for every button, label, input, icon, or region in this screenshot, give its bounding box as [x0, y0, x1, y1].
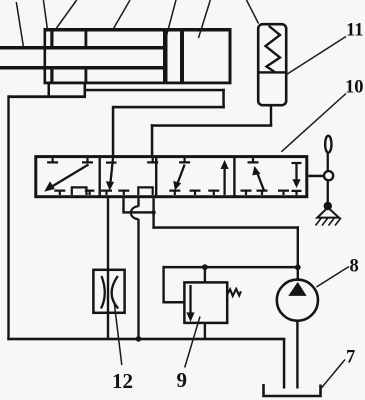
piston left face [163, 30, 168, 82]
valve S1 diagonal arrow [50, 165, 89, 189]
cylinder barrel right wall [229, 28, 232, 84]
lever mount hatching [316, 218, 342, 226]
valve S2 bottom T left [101, 191, 112, 195]
valve S4 diagonal arrow [257, 172, 265, 192]
valve S4 bottom T right [278, 191, 289, 195]
valve section divider 3 [233, 157, 235, 197]
leader line to label 7 [322, 360, 345, 388]
lever pivot ball [324, 202, 332, 210]
valve S1 bottom T [54, 191, 65, 195]
valve S3 bottom T mid [190, 191, 201, 195]
lever knob [325, 136, 331, 153]
leader line to label 2 (cut off) [43, 0, 47, 29]
wire step down right of barrel [222, 89, 225, 109]
piston rod bottom line [0, 66, 166, 70]
wire hop arc crossing [131, 206, 139, 219]
wire left vertical long [7, 95, 9, 340]
relief valve 9 body [184, 282, 227, 323]
svg-text:8: 8 [350, 257, 359, 277]
leader line to label 12 [114, 303, 122, 366]
wire drop to valve port B [151, 124, 154, 156]
valve S3 bottom T left [169, 191, 180, 195]
svg-text:9: 9 [177, 368, 188, 392]
valve S1 bottom port bump [72, 187, 87, 195]
leader line to accumulator (cut off label) [247, 0, 259, 24]
accumulator U11 body [258, 24, 286, 105]
valve S4 bottom T mid [257, 191, 268, 195]
throttle left arc [101, 276, 105, 309]
valve S2 bottom port bump [138, 187, 152, 195]
wire drop to valve port A [112, 106, 115, 156]
valve S2 vertical arrow [110, 158, 113, 184]
valve S3 up arrowhead [221, 160, 229, 169]
leader line to label 4 (cut off) [114, 0, 131, 29]
pump triangle [288, 282, 306, 296]
valve S4 down arrow crossbar [292, 162, 302, 164]
valve section divider 2 [155, 157, 157, 197]
wire valve drain down [122, 198, 124, 212]
wire pump vertical [297, 226, 299, 280]
wire accumulator to valve horizontal [151, 124, 272, 127]
leader line to label 10 [281, 94, 346, 152]
valve S4 down arrowhead [292, 179, 300, 188]
valve S1 top T port left [47, 158, 58, 162]
valve S3 up arrow stem [223, 166, 225, 195]
pump 8 circle [277, 280, 318, 321]
throttle 12 body [93, 270, 124, 313]
cylinder gland inner line lower [50, 69, 53, 83]
leader line to label 9 [185, 317, 200, 368]
leader line to label 5 (cut off) [166, 0, 176, 37]
wire pump suction [296, 321, 298, 389]
cylinder gland inner line upper [50, 30, 53, 47]
valve S4 bottom T under arrow [292, 191, 302, 195]
junction dot pump branch [295, 264, 301, 270]
wire bottom tank return horizontal [7, 338, 285, 341]
piston right face [180, 30, 184, 82]
svg-text:12: 12 [112, 369, 133, 393]
cylinder port box right wall [84, 84, 87, 96]
wire relief branch horizontal [163, 266, 298, 269]
wire from port box bottom to left [8, 95, 86, 98]
valve S4 bottom T left [241, 191, 252, 195]
cylinder guide line upper [85, 30, 88, 47]
leader line to label 3 (cut off) [57, 0, 77, 28]
lever pivot mount triangle [317, 208, 339, 218]
wire bottom return drop to tank [283, 338, 286, 389]
valve S4 top T port [248, 158, 259, 162]
valve S1 bottom T right [85, 191, 95, 195]
valve S4 down arrow stem [295, 163, 297, 182]
junction blob riser [151, 210, 155, 214]
valve S2 bottom T mid [118, 191, 129, 195]
throttle right arc [112, 276, 119, 309]
valve section divider 1 [99, 157, 101, 197]
wire relief valve bottom stub [204, 323, 206, 339]
piston rod top line [0, 46, 166, 50]
junction dot hop line into tank line [136, 336, 142, 342]
wire valve port to throttle (vertical) [107, 198, 109, 339]
valve S1 top T port right [82, 158, 93, 162]
relief valve spring [227, 289, 241, 296]
valve S1 arrowhead [44, 181, 55, 192]
valve S2 top T right [147, 158, 158, 162]
svg-text:11: 11 [346, 21, 363, 41]
wire pump riser vertical upper [152, 198, 154, 229]
lever shaft lower [327, 181, 329, 204]
wire valve to lever link [308, 175, 323, 178]
wire relief branch down left [162, 266, 164, 304]
cylinder port box left wall [48, 84, 51, 96]
relief valve internal arrowhead [186, 312, 194, 322]
valve S2 arrowhead [106, 181, 114, 191]
junction dot relief stub [202, 264, 208, 270]
accumulator spring zigzag [266, 27, 281, 72]
wire back left above valve [113, 106, 225, 109]
cylinder barrel top wall [44, 28, 232, 32]
cylinder gland outer line [44, 28, 47, 84]
lever pivot circle [324, 171, 333, 180]
valve S3 arrowhead [173, 181, 181, 191]
wire under barrel horizontal [85, 89, 225, 92]
valve S3 bottom T right [208, 191, 219, 195]
wire accumulator outlet stub [270, 105, 272, 126]
wire drain horizontal to pressure riser [122, 211, 154, 213]
leader line to label 6 (cut off) [199, 0, 211, 38]
wire relief valve top stub [204, 268, 206, 283]
relief valve internal arrow stem [189, 285, 191, 314]
tank 7 [264, 384, 321, 396]
wire hop line upper [137, 198, 139, 206]
wire relief branch into valve left port [162, 301, 184, 304]
svg-text:10: 10 [345, 78, 364, 98]
valve S2 top port crossbar [106, 162, 117, 164]
valve S4 arrowhead up [252, 166, 260, 176]
wire pump line horizontal [152, 226, 299, 229]
leader line to label 11 [287, 37, 347, 75]
valve S3 top T port [179, 158, 190, 162]
cylinder guide line lower [85, 69, 88, 83]
wire hop line lower [137, 219, 139, 339]
lever shaft upper [327, 153, 329, 172]
valve block 10 outline [36, 157, 307, 197]
leader line to label 1 (cut off) [16, 2, 24, 49]
cylinder barrel bottom wall [44, 82, 232, 85]
svg-text:7: 7 [346, 348, 355, 368]
valve S3 diagonal arrow [177, 165, 184, 185]
accumulator divider line [258, 71, 286, 73]
leader line to label 8 [316, 267, 349, 288]
